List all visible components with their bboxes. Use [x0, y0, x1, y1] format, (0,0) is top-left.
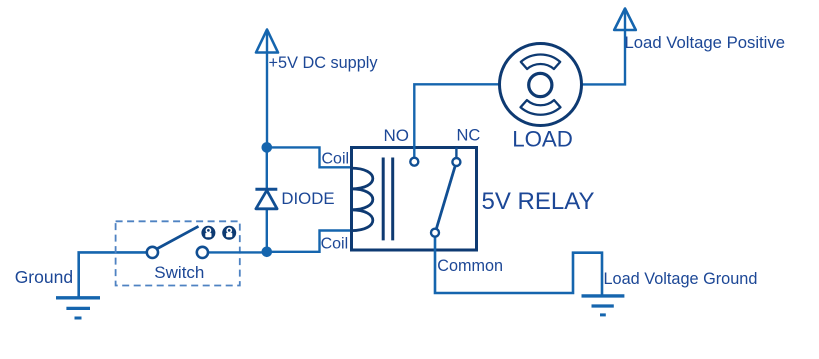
ground symbol left bar 2 [66, 307, 90, 310]
relay core line 2 [391, 158, 394, 241]
power symbol load voltage positive arrow [614, 9, 636, 31]
wire NC stub [455, 148, 457, 163]
load M1 bottom band [521, 100, 561, 115]
diode D1 cathode bar [255, 188, 277, 191]
ground symbol right bar 1 [582, 294, 625, 297]
diode D1 triangle [256, 190, 277, 209]
ground symbol right bar 3 [600, 313, 606, 316]
power symbol +5V arrow [256, 30, 278, 53]
load M1 inner hub circle [529, 73, 552, 96]
relay armature (common to NC) [436, 166, 455, 229]
wire +5V supply vertical [266, 31, 268, 148]
svg-text:Load Voltage Ground: Load Voltage Ground [604, 270, 758, 288]
wire junction to coil top terminal [267, 147, 352, 167]
wire diode branch vertical [266, 147, 268, 251]
relay core line 1 [382, 158, 385, 241]
switch S1 dashed enclosure [116, 221, 240, 285]
svg-text:Coil: Coil [322, 151, 350, 168]
svg-text:Coil: Coil [321, 236, 349, 253]
switch button icon 2 [222, 226, 236, 240]
node junction top (supply / diode / coil) [262, 142, 273, 153]
relay contact NC terminal circle [452, 158, 460, 166]
switch S1 lever [157, 226, 199, 249]
node junction bottom (switch / diode / coil) [262, 247, 273, 258]
relay coil winding L1 [351, 168, 373, 231]
ground symbol left bar 3 [75, 317, 82, 320]
relay contact common terminal circle [431, 229, 439, 237]
ground symbol right bar 2 [592, 304, 614, 307]
svg-text:Ground: Ground [15, 267, 73, 287]
svg-text:Switch: Switch [154, 263, 204, 282]
svg-text:LOAD: LOAD [512, 127, 573, 152]
wire common terminal down [435, 233, 602, 296]
svg-text:Load Voltage Positive: Load Voltage Positive [625, 33, 786, 52]
wire arrow interior [624, 10, 626, 30]
svg-text:DIODE: DIODE [281, 189, 334, 208]
load M1 top band [521, 55, 560, 69]
switch S1 left pivot circle [147, 247, 158, 258]
ground symbol left bar 1 [56, 296, 100, 299]
wire junction to coil bottom terminal [267, 231, 352, 252]
wire switch right contact to junction [208, 251, 267, 253]
svg-text:Common: Common [437, 257, 503, 275]
svg-text:NC: NC [457, 127, 481, 145]
wire NO terminal to load [414, 84, 505, 161]
relay contact NO terminal circle [410, 158, 418, 166]
wire load to positive arrow [575, 29, 625, 84]
load M1 outer circle [500, 44, 582, 126]
wire switch to left ground [79, 252, 148, 296]
switch button icon 1 [201, 226, 215, 240]
relay K1 body [352, 148, 477, 251]
svg-text:NO: NO [384, 126, 410, 145]
switch S1 right contact circle [197, 247, 208, 258]
svg-text:5V RELAY: 5V RELAY [482, 188, 595, 215]
svg-text:+5V DC supply: +5V DC supply [269, 54, 379, 72]
